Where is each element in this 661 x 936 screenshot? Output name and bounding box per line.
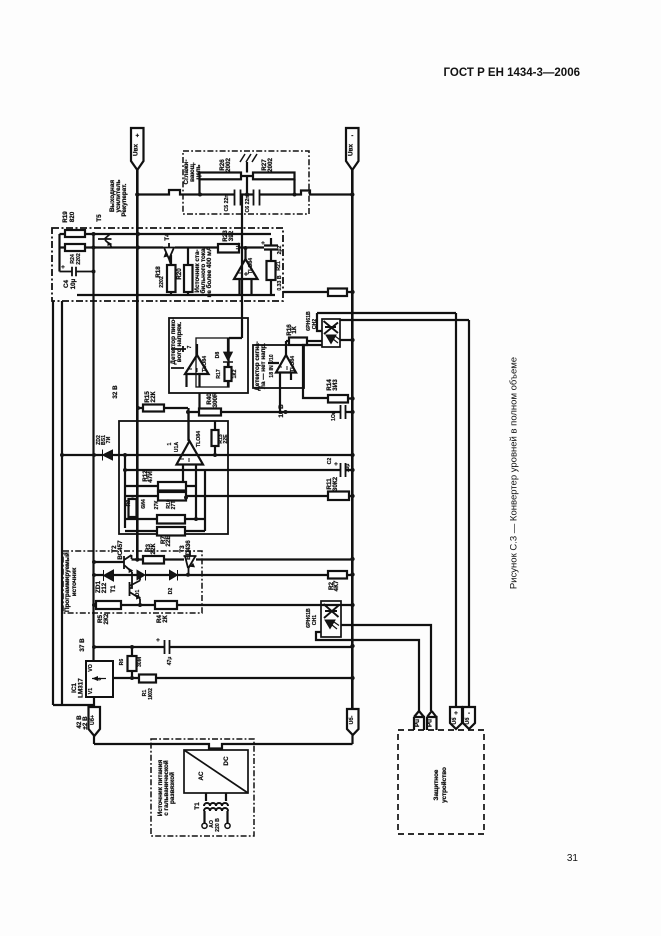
svg-text:+: + (61, 264, 65, 271)
svg-text:TLO84: TLO84 (248, 258, 254, 274)
svg-text:TLO84: TLO84 (196, 431, 202, 447)
svg-text:LM317: LM317 (78, 678, 85, 698)
svg-text:27Т: 27Т (171, 500, 177, 510)
svg-text:R18: R18 (155, 266, 162, 278)
svg-text:2202: 2202 (76, 253, 82, 265)
svg-text:6: 6 (97, 677, 103, 680)
svg-text:TLO84: TLO84 (202, 356, 208, 372)
svg-text:R9: R9 (126, 500, 132, 507)
svg-text:CH2: CH2 (312, 319, 318, 329)
svg-text:U1A: U1A (174, 442, 180, 453)
svg-text:Uб: Uб (451, 718, 458, 725)
svg-text:47µ: 47µ (167, 657, 173, 666)
svg-text:47И: 47И (147, 471, 154, 483)
svg-text:вого напряж.: вого напряж. (176, 321, 183, 362)
svg-text:30К2: 30К2 (332, 476, 339, 491)
svg-text:DС: DС (223, 756, 230, 766)
svg-text:10 В: 10 В (278, 404, 285, 418)
svg-text:300R: 300R (212, 392, 219, 408)
svg-text:R6: R6 (119, 659, 125, 666)
svg-text:4К7: 4К7 (333, 580, 340, 591)
svg-text:ВD436: ВD436 (185, 540, 192, 560)
svg-text:7: 7 (187, 345, 193, 348)
svg-text:1К2: 1К2 (232, 369, 238, 378)
svg-text:2µ2: 2µ2 (277, 246, 283, 255)
svg-text:22Е: 22Е (223, 434, 229, 444)
svg-text:источник: источник (71, 567, 78, 596)
svg-text:АС: АС (198, 771, 205, 780)
svg-text:10µ: 10µ (345, 464, 351, 473)
svg-text:не более 400 мА: не более 400 мА (205, 246, 213, 297)
svg-text:V1: V1 (88, 688, 94, 694)
svg-text:Рисунок С.3 — Конвертер уровне: Рисунок С.3 — Конвертер уровней в полном… (509, 357, 520, 589)
svg-text:+: + (156, 637, 160, 644)
svg-text:Т4: Т4 (164, 233, 171, 241)
svg-text:Uб-: Uб- (348, 715, 355, 724)
svg-text:Uб: Uб (464, 718, 471, 725)
svg-text:392: 392 (228, 230, 235, 241)
svg-text:Рекуперат.: Рекуперат. (121, 183, 128, 216)
svg-text:30М: 30М (137, 657, 143, 667)
svg-text:10µ: 10µ (70, 278, 77, 289)
svg-text:220 В: 220 В (215, 818, 221, 832)
svg-text:+: + (261, 240, 265, 247)
svg-text:С4: С4 (63, 279, 70, 288)
svg-text:+: + (334, 461, 338, 468)
svg-text:Программируемый: Программируемый (63, 552, 71, 612)
svg-text:+: + (454, 710, 458, 717)
svg-text:212: 212 (101, 582, 108, 593)
svg-text:7И: 7И (106, 436, 112, 443)
svg-text:С5 22п: С5 22п (224, 195, 230, 212)
svg-text:устройство: устройство (440, 767, 448, 803)
svg-text:+: + (135, 133, 139, 140)
svg-text:VO: VO (88, 664, 94, 672)
svg-text:TLO84: TLO84 (290, 356, 296, 372)
svg-text:2202: 2202 (159, 276, 165, 288)
svg-text:2002: 2002 (267, 158, 274, 173)
svg-text:±2 В: ±2 В (82, 716, 89, 730)
svg-text:31: 31 (567, 853, 579, 864)
svg-text:32 В: 32 В (112, 385, 119, 399)
svg-text:37 В: 37 В (79, 638, 86, 652)
svg-text:развязкой: развязкой (168, 772, 176, 804)
svg-text:27К: 27К (154, 500, 160, 510)
svg-text:3И3: 3И3 (332, 379, 339, 391)
svg-text:Защитное: Защитное (433, 769, 440, 800)
svg-text:Т1: Т1 (110, 585, 117, 593)
svg-text:6И4: 6И4 (141, 499, 147, 509)
svg-text:D2: D2 (168, 588, 174, 595)
svg-text:Uб+: Uб+ (89, 715, 96, 725)
svg-text:1: 1 (167, 442, 173, 445)
svg-text:1К: 1К (291, 326, 298, 334)
svg-text:22К: 22К (150, 543, 157, 554)
svg-text:Рu: Рu (427, 719, 434, 727)
svg-text:Рu: Рu (414, 719, 421, 727)
svg-text:D8: D8 (215, 352, 221, 359)
svg-text:820: 820 (69, 211, 76, 222)
svg-text:Uвх: Uвх (132, 144, 139, 156)
svg-text:D1: D1 (135, 590, 141, 597)
svg-text:Т1: Т1 (194, 802, 201, 810)
svg-text:ВС457: ВС457 (117, 540, 124, 560)
svg-text:2002: 2002 (225, 158, 232, 173)
svg-text:ла — нет напр.: ла — нет напр. (260, 343, 267, 389)
svg-text:ГОСТ Р ЕН 1434-3—2006: ГОСТ Р ЕН 1434-3—2006 (444, 67, 580, 79)
svg-text:2К2: 2К2 (103, 613, 110, 624)
svg-text:-: - (351, 133, 353, 140)
svg-text:R19: R19 (62, 211, 69, 223)
svg-text:R17: R17 (216, 369, 222, 379)
svg-text:R20: R20 (176, 268, 183, 280)
svg-text:С2: С2 (327, 458, 333, 465)
svg-text:Т5: Т5 (96, 214, 103, 222)
svg-text:2К: 2К (162, 615, 169, 623)
svg-text:0.33 В: 0.33 В (277, 275, 283, 291)
svg-text:-: - (468, 710, 470, 717)
svg-text:U4: U4 (236, 243, 242, 250)
svg-text:1К02: 1К02 (148, 688, 154, 700)
svg-text:22К: 22К (150, 391, 157, 402)
svg-text:цепь: цепь (195, 164, 202, 179)
svg-text:CH1: CH1 (312, 615, 318, 625)
svg-text:1Оn: 1Оn (331, 411, 337, 421)
svg-text:Uвх: Uвх (347, 144, 354, 156)
svg-text:R21: R21 (276, 261, 282, 271)
svg-text:22Е: 22Е (165, 535, 172, 546)
svg-text:С6 22п: С6 22п (245, 196, 251, 213)
svg-text:18 IN U10: 18 IN U10 (269, 354, 275, 377)
